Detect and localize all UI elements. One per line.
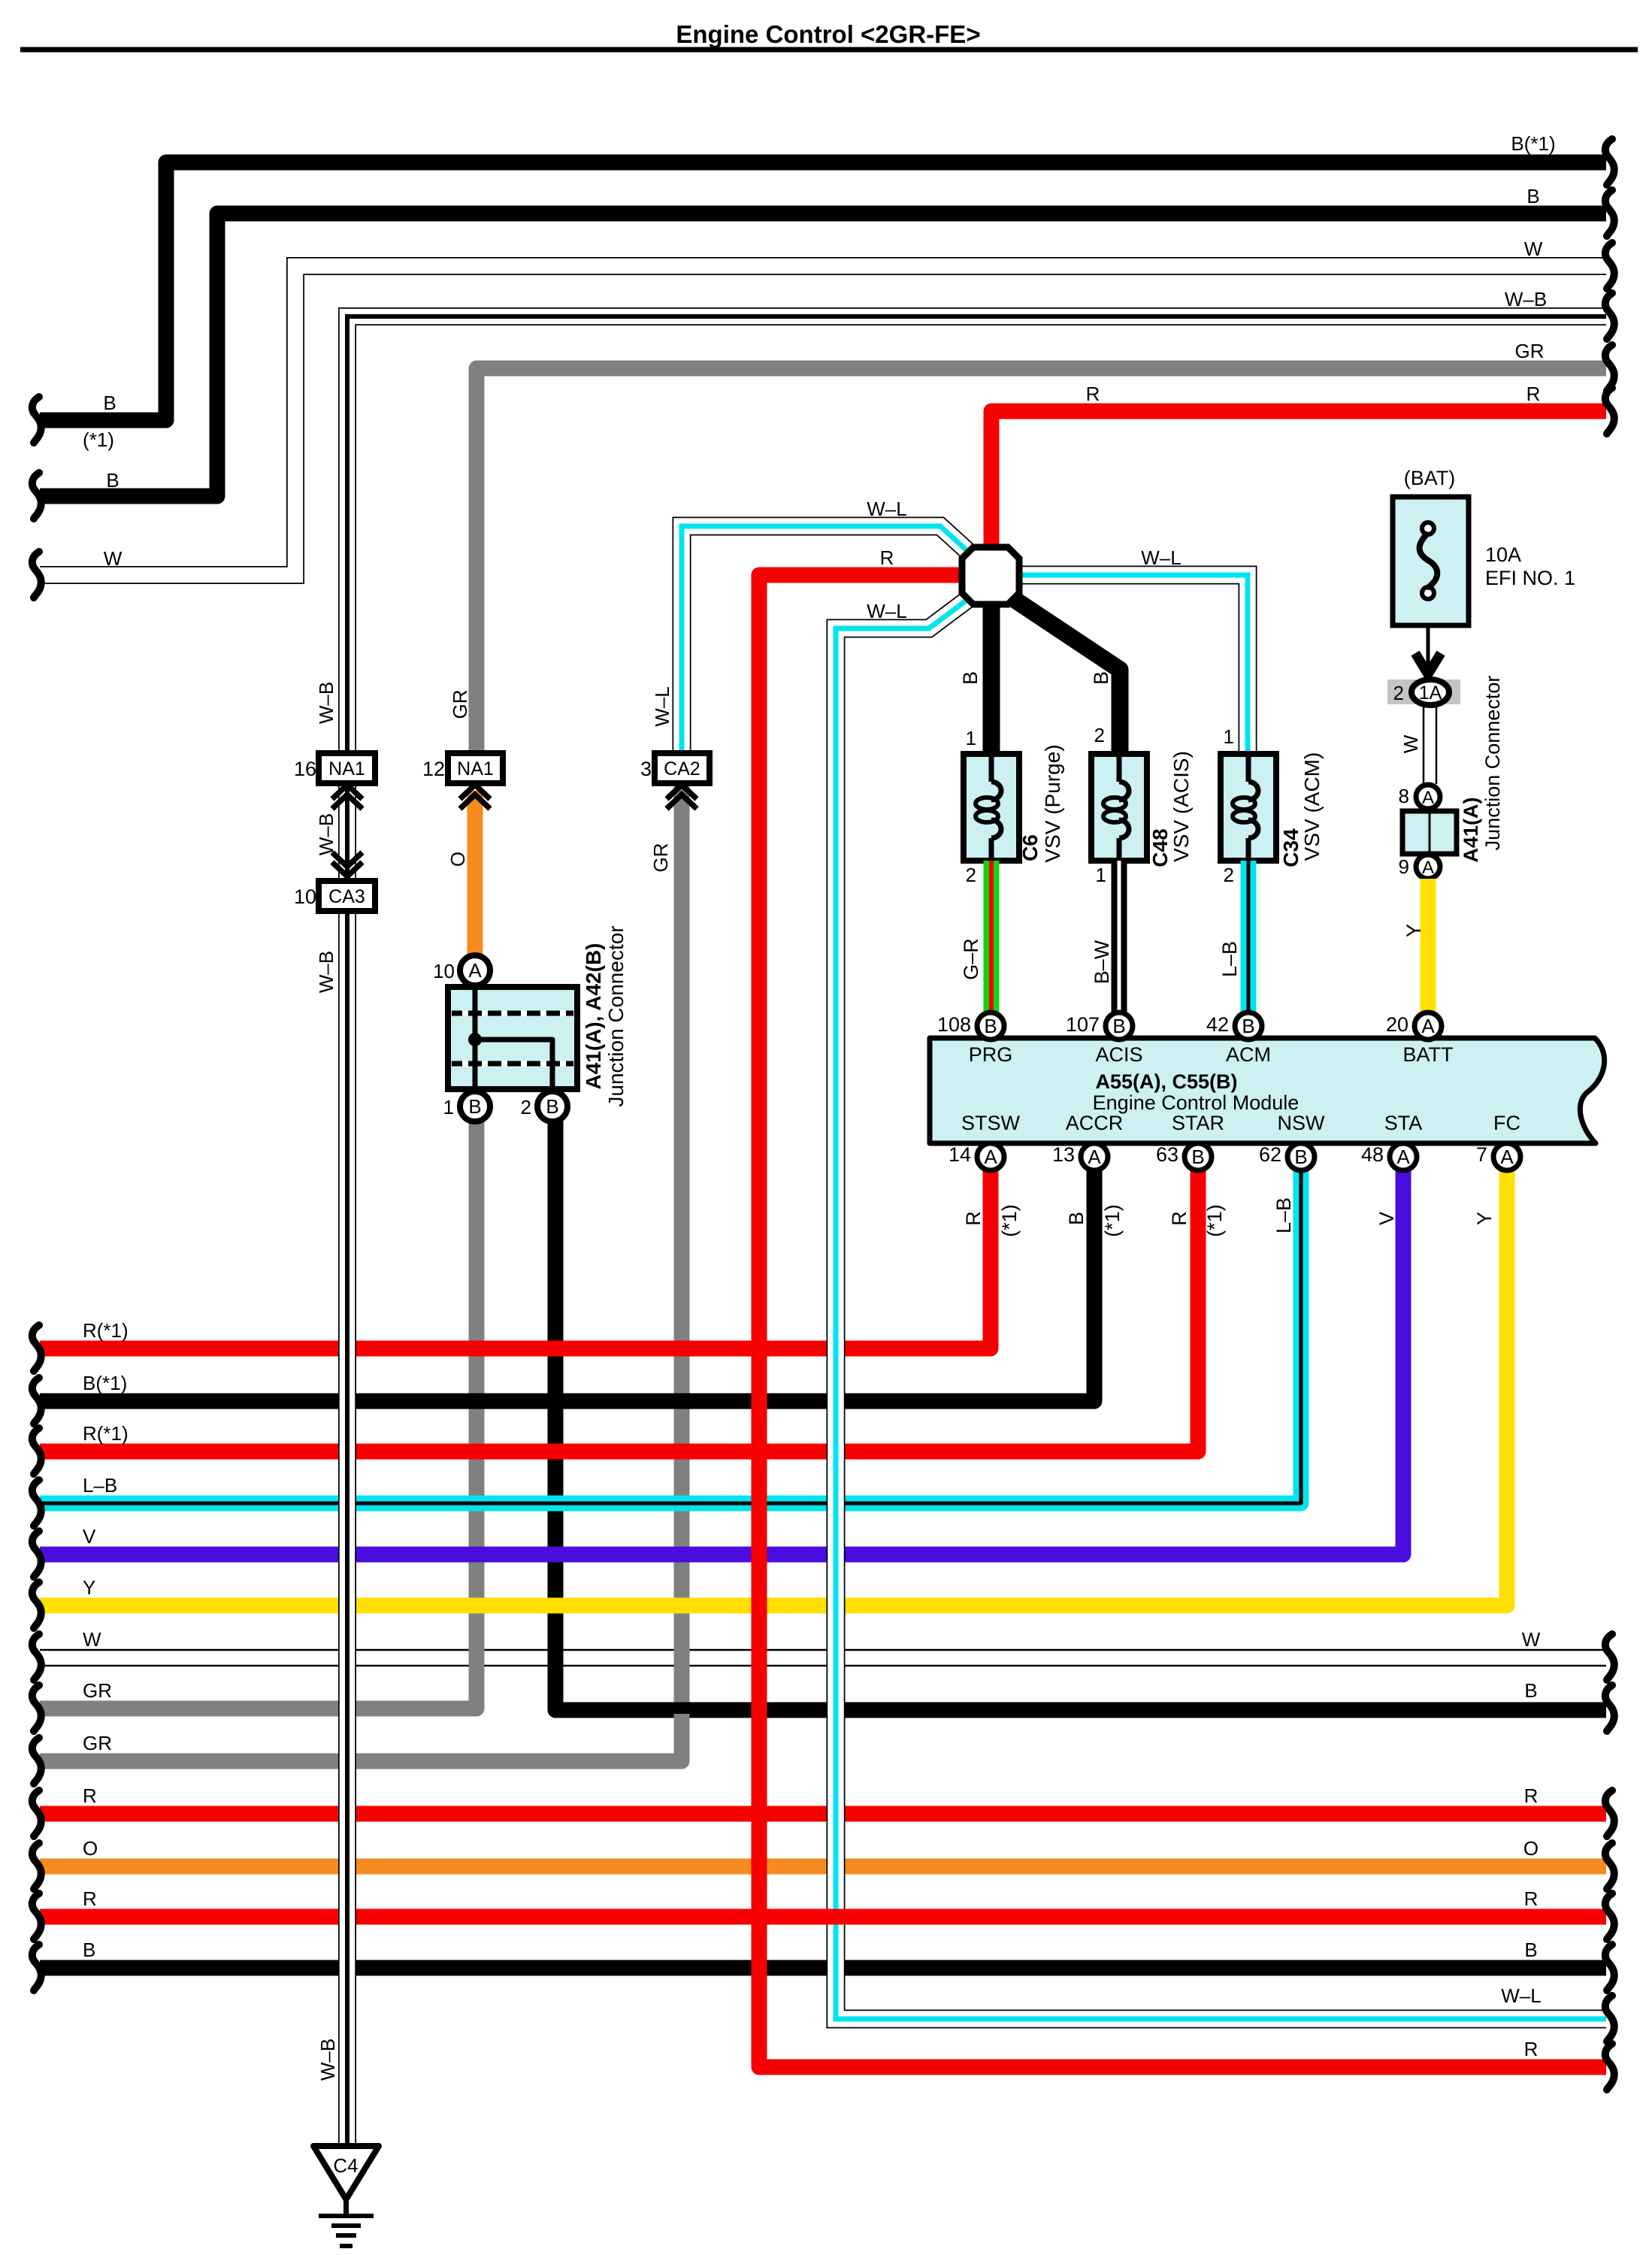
svg-text:NSW: NSW [1278, 1112, 1326, 1134]
svg-text:W: W [83, 1628, 101, 1651]
svg-text:B: B [1524, 1679, 1537, 1702]
svg-text:GR: GR [83, 1679, 112, 1702]
svg-text:16: 16 [294, 758, 316, 780]
svg-text:R: R [83, 1784, 97, 1807]
svg-text:W–B: W–B [315, 951, 337, 993]
svg-text:VSV (Purge): VSV (Purge) [1041, 744, 1064, 862]
svg-text:B: B [1065, 1212, 1088, 1225]
svg-text:Engine Control Module: Engine Control Module [1093, 1091, 1300, 1114]
svg-text:W–L: W–L [651, 686, 673, 726]
svg-text:FC: FC [1493, 1112, 1520, 1134]
svg-text:W: W [1522, 1628, 1541, 1651]
svg-text:B: B [83, 1939, 95, 1961]
svg-text:B: B [1090, 671, 1112, 685]
svg-text:A: A [468, 959, 482, 982]
svg-text:12: 12 [422, 758, 445, 780]
svg-text:GR: GR [649, 843, 672, 873]
svg-text:63: 63 [1156, 1143, 1178, 1166]
svg-text:10A: 10A [1485, 543, 1521, 566]
svg-text:62: 62 [1259, 1143, 1281, 1166]
svg-text:Y: Y [83, 1576, 95, 1599]
svg-text:2: 2 [1393, 682, 1404, 704]
svg-text:A41(A): A41(A) [1460, 797, 1482, 862]
svg-text:W: W [1524, 238, 1543, 260]
svg-text:C6: C6 [1018, 834, 1042, 861]
svg-text:1: 1 [966, 727, 976, 749]
svg-text:G–R: G–R [960, 938, 982, 980]
svg-text:(*1): (*1) [1203, 1204, 1226, 1237]
svg-text:W–B: W–B [315, 813, 337, 855]
svg-text:W–L: W–L [867, 498, 906, 520]
svg-text:PRG: PRG [969, 1043, 1013, 1066]
svg-text:9: 9 [1399, 855, 1409, 878]
svg-text:BATT: BATT [1403, 1043, 1454, 1066]
svg-text:Y: Y [1402, 924, 1425, 937]
svg-text:L–B: L–B [1218, 941, 1241, 977]
svg-text:R(*1): R(*1) [83, 1319, 129, 1342]
svg-text:Junction Connector: Junction Connector [604, 925, 628, 1106]
svg-text:10: 10 [294, 885, 316, 908]
svg-text:B–W: B–W [1091, 940, 1113, 984]
svg-text:NA1: NA1 [457, 758, 494, 779]
svg-text:3: 3 [640, 758, 652, 780]
svg-text:1A: 1A [1419, 683, 1442, 704]
svg-text:VSV (ACIS): VSV (ACIS) [1169, 751, 1193, 862]
svg-text:R: R [1086, 383, 1100, 405]
svg-text:B: B [106, 469, 119, 492]
svg-text:C34: C34 [1279, 828, 1303, 867]
svg-text:GR: GR [83, 1732, 112, 1754]
svg-text:A: A [1396, 1146, 1410, 1168]
svg-text:R: R [1524, 2038, 1539, 2060]
svg-text:STA: STA [1384, 1112, 1423, 1134]
svg-text:B: B [984, 1015, 997, 1037]
svg-text:C4: C4 [333, 2154, 358, 2177]
svg-text:EFI NO. 1: EFI NO. 1 [1485, 567, 1575, 589]
svg-text:L–B: L–B [1272, 1197, 1295, 1233]
svg-text:Y: Y [1473, 1212, 1496, 1225]
svg-text:48: 48 [1361, 1143, 1384, 1166]
svg-text:R: R [1524, 1784, 1539, 1807]
svg-text:107: 107 [1066, 1013, 1100, 1036]
svg-text:B: B [1191, 1146, 1204, 1168]
svg-text:W–B: W–B [315, 682, 337, 724]
svg-text:B: B [1242, 1015, 1254, 1037]
svg-text:O: O [1523, 1837, 1539, 1860]
svg-text:L–B: L–B [83, 1474, 117, 1497]
svg-text:2: 2 [521, 1096, 531, 1118]
svg-text:B: B [103, 392, 116, 414]
svg-text:O: O [446, 852, 469, 867]
svg-text:A: A [1422, 788, 1434, 808]
svg-text:B: B [1294, 1146, 1307, 1168]
svg-text:A: A [1422, 858, 1434, 878]
svg-text:B: B [1112, 1015, 1125, 1037]
svg-text:B: B [546, 1095, 558, 1118]
svg-text:O: O [83, 1837, 98, 1860]
svg-text:R: R [962, 1211, 985, 1226]
svg-text:GR: GR [1515, 340, 1545, 362]
svg-text:A: A [1421, 1015, 1435, 1037]
svg-text:Engine Control <2GR-FE>: Engine Control <2GR-FE> [676, 20, 980, 48]
svg-text:NA1: NA1 [328, 758, 365, 779]
svg-text:A41(A), A42(B): A41(A), A42(B) [582, 943, 605, 1090]
svg-text:(*1): (*1) [83, 428, 114, 451]
svg-text:B: B [468, 1095, 481, 1118]
svg-text:R: R [1524, 1887, 1539, 1910]
svg-text:W–L: W–L [1501, 1984, 1541, 2007]
svg-text:V: V [83, 1525, 96, 1548]
svg-text:W: W [1399, 734, 1422, 753]
svg-text:ACIS: ACIS [1095, 1043, 1142, 1066]
svg-text:CA2: CA2 [664, 758, 700, 779]
svg-text:ACM: ACM [1226, 1043, 1271, 1066]
svg-text:2: 2 [966, 864, 976, 886]
svg-text:Junction Connector: Junction Connector [1481, 676, 1504, 851]
svg-text:R: R [1168, 1211, 1191, 1226]
svg-text:R(*1): R(*1) [83, 1422, 129, 1445]
svg-text:10: 10 [433, 960, 455, 982]
svg-text:1: 1 [443, 1096, 454, 1118]
svg-text:STAR: STAR [1172, 1112, 1224, 1134]
svg-text:C48: C48 [1148, 828, 1172, 867]
svg-text:8: 8 [1399, 785, 1409, 807]
svg-text:2: 2 [1094, 724, 1105, 746]
svg-text:GR: GR [449, 690, 471, 719]
svg-text:A: A [1500, 1146, 1514, 1168]
svg-text:R: R [880, 546, 894, 569]
svg-text:1: 1 [1096, 864, 1106, 886]
svg-text:STSW: STSW [961, 1112, 1021, 1134]
svg-text:B: B [1524, 1939, 1537, 1961]
svg-text:R: R [1526, 383, 1541, 405]
svg-text:W: W [104, 547, 123, 570]
svg-text:CA3: CA3 [328, 886, 365, 907]
svg-text:B(*1): B(*1) [1511, 132, 1555, 155]
svg-text:A: A [1088, 1146, 1101, 1168]
svg-text:R: R [83, 1887, 97, 1910]
svg-text:A: A [984, 1146, 997, 1168]
svg-text:W–L: W–L [1141, 546, 1181, 569]
svg-text:W–B: W–B [1505, 288, 1547, 310]
svg-text:(*1): (*1) [1101, 1204, 1124, 1237]
svg-text:13: 13 [1052, 1143, 1075, 1166]
svg-text:W–B: W–B [316, 2039, 339, 2081]
svg-text:B: B [959, 671, 982, 685]
svg-text:42: 42 [1206, 1013, 1229, 1036]
svg-text:20: 20 [1386, 1013, 1408, 1036]
svg-text:A55(A), C55(B): A55(A), C55(B) [1095, 1070, 1237, 1093]
svg-text:B: B [1526, 185, 1539, 207]
svg-text:ACCR: ACCR [1066, 1112, 1124, 1134]
svg-text:7: 7 [1476, 1143, 1487, 1166]
svg-text:B(*1): B(*1) [83, 1372, 127, 1394]
svg-text:(*1): (*1) [998, 1204, 1021, 1237]
svg-text:108: 108 [937, 1013, 971, 1036]
svg-text:14: 14 [949, 1143, 971, 1166]
svg-text:W–L: W–L [867, 600, 906, 622]
svg-text:1: 1 [1224, 725, 1234, 748]
svg-text:(BAT): (BAT) [1404, 467, 1456, 489]
svg-text:V: V [1375, 1212, 1398, 1225]
svg-text:VSV (ACM): VSV (ACM) [1300, 752, 1324, 861]
svg-text:2: 2 [1224, 864, 1234, 886]
